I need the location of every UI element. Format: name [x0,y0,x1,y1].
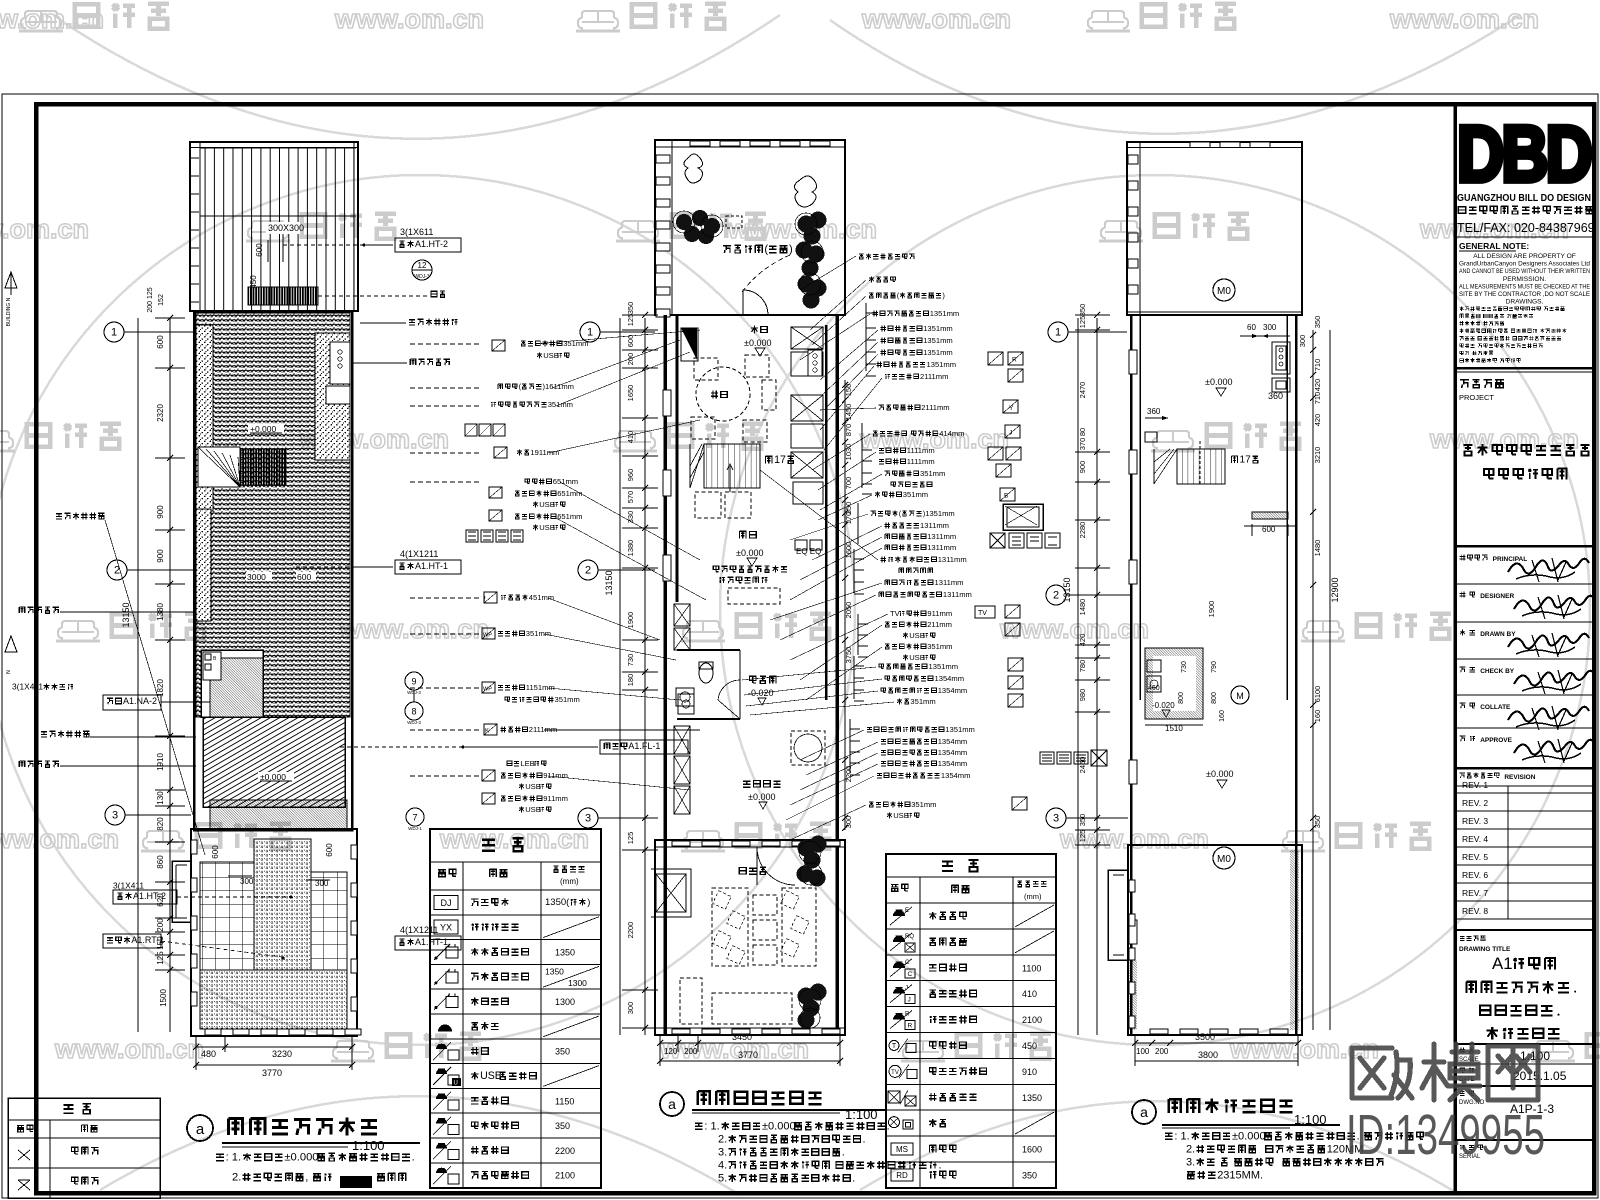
wall window boxes left [663,390,671,416]
svg-text:REVISION: REVISION [1504,774,1535,781]
left plan: terrace [191,829,357,1036]
annotation group brackets [850,303,876,775]
svg-text:911mm: 911mm [927,609,952,618]
svg-text:350: 350 [555,1121,570,1131]
svg-text:2100: 2100 [555,1171,575,1181]
svg-text:710: 710 [1313,359,1322,372]
living room labels [740,531,746,538]
svg-text:A1.HT-2: A1.HT-2 [133,891,166,901]
svg-text:414mm: 414mm [939,429,964,438]
svg-text:J: J [908,997,911,1004]
svg-text:13150: 13150 [604,570,614,595]
svg-text:1600: 1600 [1022,1145,1042,1155]
svg-text:M0: M0 [1217,286,1231,297]
scale row [1460,1048,1465,1053]
plants right column [796,212,827,309]
svg-text:USB: USB [480,1070,502,1082]
svg-text:1: 1 [587,327,593,339]
svg-text:COLLATE: COLLATE [1480,704,1511,711]
svg-text:1351mm: 1351mm [930,309,960,318]
svg-text:3(1X411: 3(1X411 [113,881,144,891]
svg-text:C: C [908,971,913,978]
svg-text:.: . [412,1152,415,1164]
people figures [684,154,703,183]
svg-text:.: . [863,1133,866,1145]
svg-text:.: . [852,1172,855,1184]
svg-text:7: 7 [412,813,417,823]
svg-text:3000: 3000 [247,572,266,582]
svg-text:1350: 1350 [1022,1093,1042,1103]
stipple bands [196,325,213,511]
dwg no [1460,1091,1465,1095]
svg-text:REV. 4: REV. 4 [1462,834,1488,844]
svg-text:12: 12 [418,261,427,270]
svg-text:2315MM.: 2315MM. [1217,1169,1263,1181]
svg-text:480: 480 [201,1049,216,1059]
svg-text:a: a [1140,1104,1148,1120]
svg-text:900: 900 [156,505,165,519]
svg-text:GrandUrbanCanyon Designers Ass: GrandUrbanCanyon Designers Associates Lt… [1459,261,1590,268]
svg-text:+0.000: +0.000 [250,424,277,434]
svg-text:451mm: 451mm [529,593,554,602]
svg-text:790: 790 [1211,661,1218,673]
svg-text:2100: 2100 [1022,1015,1042,1025]
svg-text:1351mm: 1351mm [923,336,953,345]
svg-text:DRAWN BY: DRAWN BY [1480,631,1516,638]
legend table 2 [886,854,1056,1188]
north arrow mid [5,636,17,652]
svg-text:17: 17 [1240,455,1252,466]
svg-text:(mm): (mm) [1024,892,1042,901]
svg-text:±0.000: ±0.000 [284,1152,318,1164]
svg-text:2320: 2320 [156,404,165,422]
svg-text:±0.000: ±0.000 [1232,1130,1266,1142]
svg-text:3210: 3210 [1313,447,1322,464]
signature rows [1460,555,1466,561]
svg-text:410: 410 [1022,989,1037,999]
small cn note lines [1460,306,1464,310]
svg-text:(: ( [764,244,768,256]
svg-text:WDJ-3: WDJ-3 [414,274,429,280]
kitchen room diag [201,650,263,717]
svg-text:351mm: 351mm [563,339,588,348]
svg-text:PROJECT: PROJECT [1459,393,1494,402]
svg-text:)1351mm: )1351mm [923,509,955,518]
svg-text:800: 800 [1178,692,1185,704]
svg-text:1:100: 1:100 [352,1138,385,1153]
svg-text:-0.020: -0.020 [1152,701,1175,710]
svg-text:9: 9 [411,677,416,687]
svg-text:2470: 2470 [1078,382,1087,399]
svg-text:1354mm: 1354mm [935,674,965,683]
svg-text:±0.000: ±0.000 [736,548,763,558]
middle bottom dims [660,1042,840,1044]
svg-text:300: 300 [626,1002,635,1015]
svg-text:1311mm: 1311mm [927,543,956,552]
svg-text:300: 300 [240,877,254,886]
svg-text:13150: 13150 [1062,577,1072,602]
svg-text:YX: YX [440,923,452,933]
annotation column right [859,254,863,259]
svg-text:3: 3 [112,810,118,822]
svg-text:1311mm: 1311mm [935,578,964,587]
svg-text:360: 360 [1268,391,1283,401]
svg-text:3: 3 [585,813,591,825]
terrace window marks [205,1029,221,1035]
svg-text:600: 600 [211,845,220,859]
svg-text:N: N [6,670,12,674]
svg-text:REV. 8: REV. 8 [1462,906,1488,916]
svg-text:BUILDING N: BUILDING N [6,297,12,326]
svg-text:A1.HT-2: A1.HT-2 [415,239,448,249]
left plan axis circles [104,322,124,342]
svg-text:420: 420 [1313,414,1322,427]
svg-text:1300: 1300 [555,997,575,1007]
left plan title [187,1115,213,1141]
svg-text:DRAWING TITLE: DRAWING TITLE [1459,946,1511,953]
svg-text:351mm: 351mm [910,697,935,706]
svg-text:USB: USB [909,653,925,662]
svg-text:RD: RD [896,1171,908,1180]
terrace bottom dims [196,1046,352,1048]
svg-text:960: 960 [626,469,635,482]
svg-text:600: 600 [156,335,165,349]
drawing title block [1460,936,1465,940]
big site watermark [1352,1044,1538,1100]
svg-text:13150: 13150 [121,602,131,627]
right stairs [1177,449,1225,484]
svg-text:200 125: 200 125 [147,287,154,312]
svg-text:R: R [905,1012,910,1018]
svg-text:160: 160 [1219,710,1226,722]
svg-text:2111mm: 2111mm [529,725,557,734]
svg-text:900: 900 [1078,461,1087,474]
svg-text:211mm: 211mm [927,620,952,629]
svg-text:1350: 1350 [555,948,575,958]
svg-text:180: 180 [626,674,635,687]
serial [1460,1145,1464,1150]
right-left dim column [1096,318,1098,1035]
svg-text:1351mm: 1351mm [945,725,975,734]
svg-text:PERMISSION.: PERMISSION. [1503,276,1546,283]
svg-text:200: 200 [626,353,635,366]
leader lines left annotations [410,343,482,345]
appliance boxes top right [1272,342,1290,374]
title block separator [1453,104,1457,1193]
svg-text:120: 120 [664,1047,678,1056]
svg-text:4(1X1211: 4(1X1211 [400,549,438,559]
svg-text:300: 300 [1263,323,1277,332]
wood floor [203,717,345,807]
svg-text:2: 2 [1053,590,1059,602]
svg-text:A1.HT-1: A1.HT-1 [415,937,448,947]
svg-text:,: , [305,1172,308,1184]
svg-text:2280: 2280 [1078,522,1087,539]
svg-text:160: 160 [1313,710,1322,723]
middle plan axis circles [580,322,600,342]
svg-text:3(1X611: 3(1X611 [400,227,433,237]
svg-text:60: 60 [1247,323,1256,332]
svg-text:200: 200 [1155,1047,1169,1056]
svg-text:820: 820 [156,817,165,831]
svg-text:DESIGNER: DESIGNER [1480,593,1514,600]
svg-text:R: R [1012,357,1017,364]
svg-text:±0.000: ±0.000 [1205,377,1232,387]
svg-text:80: 80 [1078,428,1087,436]
svg-text:450: 450 [249,275,258,289]
svg-text:350: 350 [626,302,635,315]
svg-text:600: 600 [626,335,635,348]
svg-text:300: 300 [1298,335,1307,348]
svg-text:1350: 1350 [545,966,564,976]
svg-text:1351mm: 1351mm [929,662,959,671]
right bottom dims [1135,1042,1298,1044]
svg-text:R: R [908,1023,913,1030]
svg-text:REV. 7: REV. 7 [1462,888,1488,898]
svg-text:125: 125 [1078,830,1087,843]
svg-text:PRINCIPAL: PRINCIPAL [1493,556,1528,563]
svg-text:1350(: 1350( [545,897,570,908]
svg-text:1820: 1820 [156,679,165,697]
svg-text:651mm: 651mm [553,477,578,486]
svg-text:860: 860 [156,855,165,869]
svg-text:351mm: 351mm [526,629,551,638]
svg-text:3(1X411: 3(1X411 [12,682,43,692]
svg-text:.: . [939,1159,942,1171]
svg-text:U: U [454,1081,458,1087]
svg-text:K: K [485,729,489,735]
svg-text:1111mm: 1111mm [907,457,935,466]
svg-text:600: 600 [325,843,334,857]
svg-text:351mm: 351mm [927,642,952,651]
svg-text:2200: 2200 [626,922,635,939]
svg-text:1911mm: 1911mm [530,448,559,457]
svg-text:A1.RT-1: A1.RT-1 [131,935,164,945]
svg-text:730: 730 [1181,661,1188,673]
company name cn [1458,207,1465,214]
svg-text:ALL MEASUREMENTS MUST BE CHECK: ALL MEASUREMENTS MUST BE CHECKED AT THE [1459,283,1590,290]
svg-text:3800: 3800 [1198,1050,1218,1060]
annotation symbols left [492,340,505,351]
right plan axis circles [1048,322,1068,342]
right plan bottom room [1128,845,1302,1035]
left plan: roof deck [190,142,358,311]
middle plan bottom garden room [655,840,845,1035]
dark cabinet triangle [681,328,697,360]
svg-text:1: 1 [111,327,117,339]
watermark tiles [0,4,104,34]
svg-text:±0.000: ±0.000 [1206,769,1233,779]
legend table 1 [430,829,601,1188]
svg-text:350: 350 [1022,1170,1037,1180]
svg-text:200: 200 [156,918,165,932]
svg-text:351mm: 351mm [920,469,945,478]
svg-text:350: 350 [1078,814,1087,827]
svg-text:SITE BY THE CONTRACTOR ,DO NOT: SITE BY THE CONTRACTOR ,DO NOT SCALE [1459,291,1591,298]
leader diagonals right side [742,256,894,840]
small legend table [8,1098,160,1198]
svg-text:USB: USB [525,805,541,814]
svg-text:1111mm: 1111mm [907,446,935,455]
svg-text:REV. 5: REV. 5 [1462,852,1488,862]
svg-text:USB: USB [525,782,541,791]
garden door arc [757,847,795,885]
svg-text:3.: 3. [718,1146,727,1158]
svg-text:A1.NA-2: A1.NA-2 [123,696,157,706]
stairs [704,444,760,488]
svg-text:600: 600 [297,572,311,582]
svg-text:LEB: LEB [520,759,534,768]
svg-text:100: 100 [1136,1047,1150,1056]
svg-text:WP: WP [483,633,492,639]
svg-text:911mm: 911mm [543,794,568,803]
svg-text:B: B [1004,493,1008,500]
svg-text:1500: 1500 [159,989,168,1007]
svg-text:300X300: 300X300 [268,223,304,233]
svg-text:911mm: 911mm [543,771,568,780]
garden walls window marks [672,841,690,846]
M0 circle top [1213,279,1235,301]
svg-text:1351mm: 1351mm [923,324,953,333]
middle plan title [660,1092,684,1116]
svg-text:1: 1 [1055,327,1061,339]
svg-text:: 1.: : 1. [704,1120,719,1132]
deck mat comb [248,287,318,305]
svg-text:AND CANNOT BE USED WITHOUT: AND CANNOT BE USED WITHOUT THEIR WRITTEN [1459,268,1590,275]
svg-text:TV: TV [890,609,901,618]
svg-text:2450: 2450 [1078,757,1087,774]
svg-text:M0: M0 [1217,854,1231,865]
svg-text:5.: 5. [718,1172,727,1184]
plants left [676,210,720,244]
svg-text:4(1X1211: 4(1X1211 [400,925,438,935]
svg-text:130: 130 [156,791,165,805]
north arrow top [5,272,17,288]
icon cluster row2 [465,424,477,436]
svg-text:REV. 1: REV. 1 [1462,780,1488,790]
bottom room hatched walls [1290,850,1299,1030]
svg-text:1900: 1900 [1207,601,1216,618]
svg-text:3450: 3450 [732,1032,752,1042]
svg-text:CHECK BY: CHECK BY [1480,668,1515,675]
EQ EQ boxes mid [795,540,807,550]
dark rug [240,449,286,485]
deck label 300X300 [266,222,300,234]
svg-text:USB: USB [539,523,555,532]
svg-text:Y: Y [1009,405,1014,412]
svg-text:3500: 3500 [1195,1032,1215,1042]
svg-text:a: a [668,1096,676,1112]
svg-text:3.: 3. [1186,1156,1195,1168]
svg-text:1100: 1100 [1022,963,1041,973]
svg-text:): ) [789,244,793,256]
svg-text:800: 800 [1211,692,1218,704]
svg-text:651mm: 651mm [557,489,582,498]
玄关 [751,326,758,334]
svg-text:651mm: 651mm [557,512,582,521]
left dim column [169,318,171,1032]
svg-text:1480: 1480 [1078,599,1087,616]
multiroom [743,781,750,787]
svg-text:600: 600 [255,243,264,257]
svg-text:MS: MS [896,1145,908,1154]
svg-text:1351mm: 1351mm [923,348,953,357]
middle plan: entry platform [655,140,845,315]
svg-text:GENERAL NOTE:: GENERAL NOTE: [1459,241,1529,251]
svg-text:REV. 2: REV. 2 [1462,798,1488,808]
svg-text:a: a [196,1121,205,1138]
svg-text:A1.FL-1: A1.FL-1 [628,741,660,751]
svg-text:USB: USB [893,811,909,820]
svg-text:WP: WP [483,687,492,693]
svg-text:1380: 1380 [626,540,635,557]
svg-text:3: 3 [1053,813,1059,825]
small circles 9 8 7 [405,672,423,690]
svg-text:2: 2 [585,565,591,577]
svg-text:3770: 3770 [262,1068,282,1078]
svg-text:1311mm: 1311mm [943,590,972,599]
svg-text:±0.000: ±0.000 [762,1120,796,1132]
middle left dim column [644,318,646,1035]
svg-text:±0.000: ±0.000 [260,772,286,782]
svg-text:RQ: RQ [905,934,914,940]
walkway strip [210,800,347,829]
right plan title [1132,1100,1156,1124]
svg-text:2.: 2. [232,1172,241,1184]
right plan main walls [1130,315,1133,1035]
svg-text:TV: TV [891,1070,899,1076]
svg-text:USB: USB [543,351,559,360]
svg-text:1354mm: 1354mm [941,771,971,780]
svg-text:125: 125 [626,314,635,327]
svg-text:A1: A1 [1492,954,1513,973]
project name [1463,445,1472,455]
svg-text:125: 125 [156,951,165,965]
svg-text:910: 910 [1022,1067,1037,1077]
svg-text:4.: 4. [718,1159,727,1171]
svg-text:460: 460 [1148,685,1160,692]
svg-text:1311mm: 1311mm [938,555,967,564]
multiroom sym row [1040,752,1054,764]
elevator X box [656,874,686,912]
svg-text:1151mm: 1151mm [526,683,555,692]
date row [1460,1068,1464,1073]
svg-text:6100: 6100 [1313,686,1322,703]
svg-text:1311mm: 1311mm [920,521,949,530]
project header [1460,380,1469,388]
svg-text:900: 900 [156,549,165,563]
DBD logo [1457,111,1590,199]
svg-text:12900: 12900 [1330,577,1340,602]
svg-text:1311mm: 1311mm [927,532,956,541]
svg-text:420: 420 [1078,634,1087,647]
svg-text:351mm: 351mm [555,695,580,704]
level label [248,424,284,433]
svg-text:2111mm: 2111mm [920,372,948,381]
garden plants [797,836,827,1029]
svg-text:1650: 1650 [626,385,635,402]
svg-text:±0.000: ±0.000 [748,792,775,802]
svg-text:125: 125 [1078,316,1087,329]
svg-text:710: 710 [1313,392,1322,405]
svg-text:)1611mm: )1611mm [543,382,575,391]
kitchen column [791,327,823,349]
svg-text:REV. 6: REV. 6 [1462,870,1488,880]
wood floor label [600,740,688,754]
svg-text:350: 350 [555,1047,570,1057]
svg-text:570: 570 [626,491,635,504]
svg-text:3770: 3770 [738,1050,758,1060]
